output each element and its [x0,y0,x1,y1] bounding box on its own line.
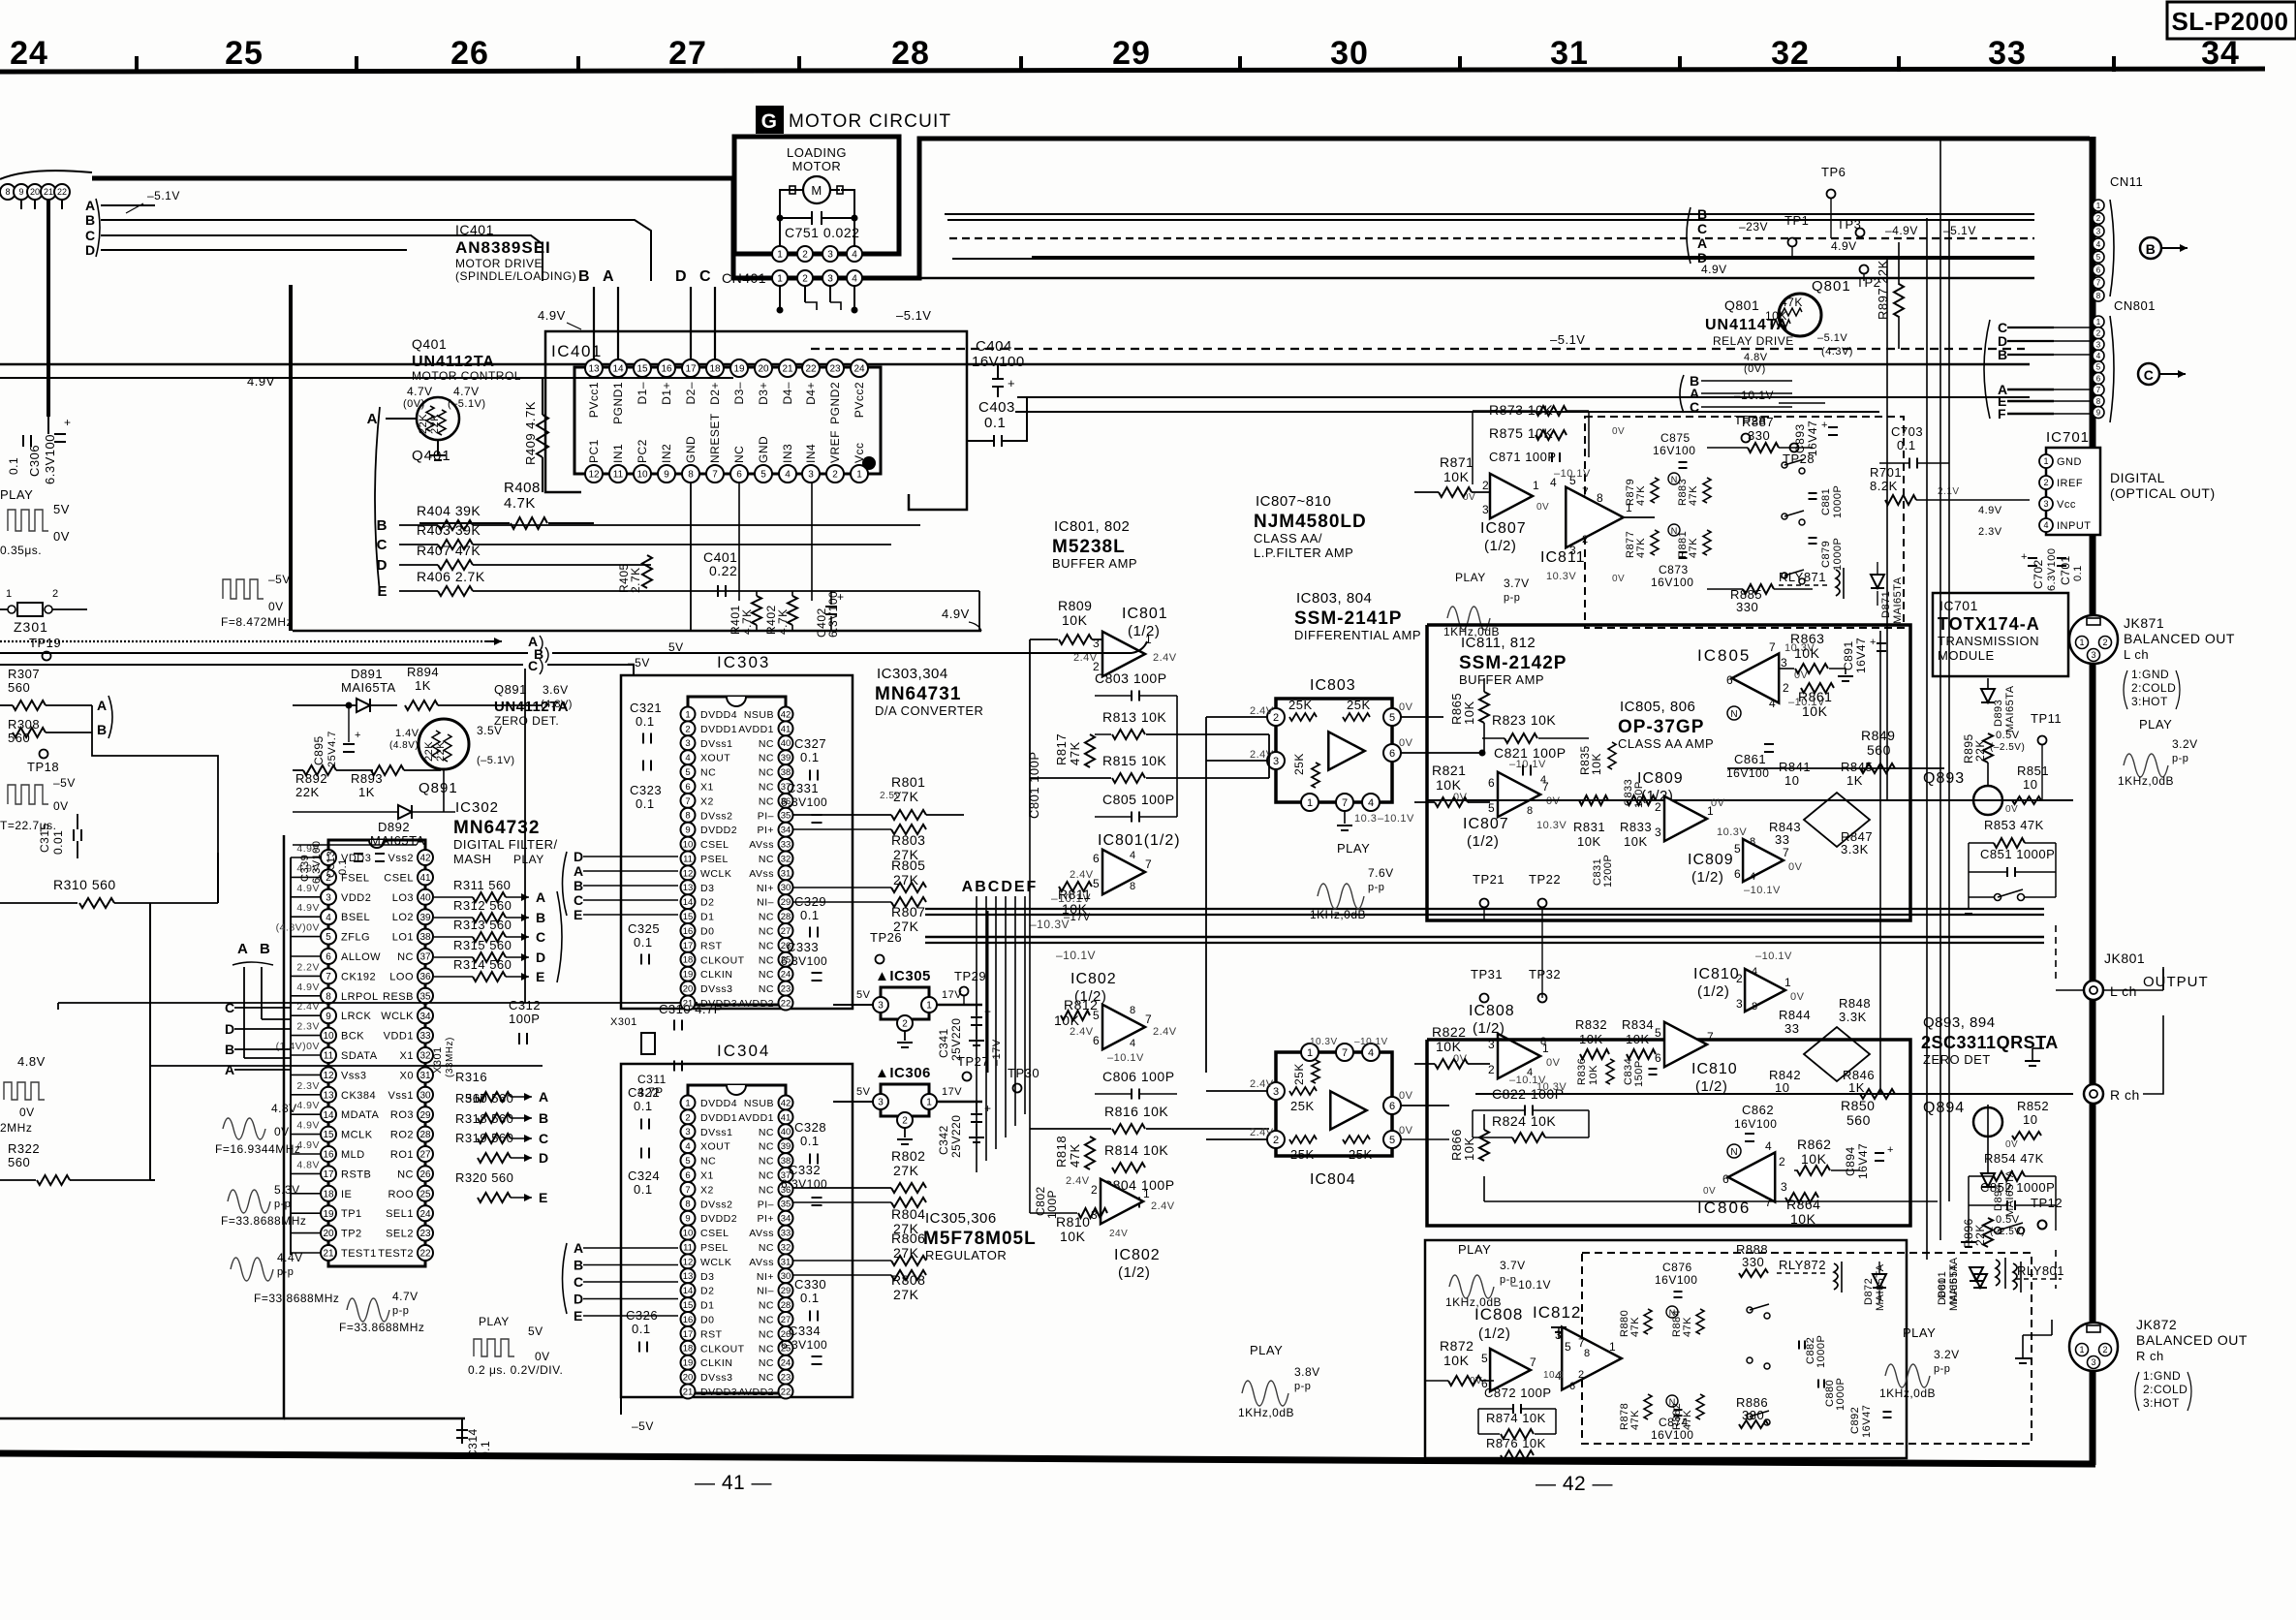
svg-text:7: 7 [1145,1012,1152,1026]
svg-text:2: 2 [2102,1345,2107,1355]
svg-text:DVDD1: DVDD1 [700,1112,737,1124]
svg-text:15: 15 [636,364,648,375]
svg-text:2: 2 [802,250,808,261]
bus 10.3V lower pair [925,936,2044,939]
svg-text:(1/2): (1/2) [1697,983,1729,1000]
svg-text:3: 3 [878,1001,884,1012]
svg-text:8: 8 [5,187,10,197]
svg-text:R318 560: R318 560 [455,1111,513,1126]
svg-text:+: + [1008,376,1015,390]
thick box L channel [1427,625,1910,920]
op-amp IC804 box [1276,1052,1392,1156]
svg-text:28: 28 [781,1300,791,1311]
svg-text:2: 2 [2043,478,2048,487]
svg-text:11: 11 [324,1051,334,1062]
svg-text:38: 38 [781,767,791,778]
svg-text:10.3V: 10.3V [1546,571,1576,582]
svg-text:NJM4580LD: NJM4580LD [1254,512,1367,532]
svg-text:PLAY: PLAY [0,487,33,502]
svg-text:19: 19 [683,1358,694,1369]
connector CN401 upper row [772,246,788,262]
ruler tick 30.5 [1458,56,1462,72]
svg-text:(33MHz): (33MHz) [445,1037,455,1077]
svg-text:C821 100P: C821 100P [1494,745,1567,761]
svg-text:10: 10 [1775,1080,1789,1095]
svg-text:1KHz,0dB: 1KHz,0dB [1238,1406,1294,1419]
svg-text:22: 22 [781,1386,791,1397]
svg-text:B: B [1697,206,1708,222]
SL-P2000 title box [2167,2,2296,39]
svg-text:0.1: 0.1 [479,1441,492,1458]
waveform T=22.7us [8,785,48,804]
svg-text:20: 20 [758,364,769,375]
svg-text:A: A [574,1240,584,1256]
svg-text:17V: 17V [942,1086,962,1098]
svg-text:NRESET: NRESET [708,413,722,463]
svg-text:IC802: IC802 [1114,1247,1161,1263]
svg-text:16V47: 16V47 [1854,638,1868,673]
svg-text:33: 33 [781,840,791,851]
svg-text:0.1: 0.1 [7,457,20,475]
svg-text:1: 1 [1609,1340,1616,1354]
svg-text:5: 5 [2096,363,2101,372]
dashed line L [2055,925,2057,979]
svg-text:17: 17 [683,941,694,951]
svg-text:NC: NC [759,926,774,938]
IC304 pins [681,1096,696,1110]
svg-text:A: A [97,698,108,713]
svg-text:C: C [536,929,546,945]
svg-text:IC809: IC809 [1637,770,1684,787]
svg-text:R833: R833 [1620,820,1652,834]
waveform 5.3V [228,1190,270,1213]
op-amp IC802 second half [1101,1179,1143,1224]
svg-text:(4.8V)0V: (4.8V)0V [276,922,320,934]
svg-text:C341: C341 [937,1028,950,1058]
svg-text:29: 29 [781,1286,791,1296]
svg-text:1: 1 [777,250,783,261]
svg-text:2.5V: 2.5V [880,791,902,801]
svg-text:47K: 47K [1682,1317,1693,1337]
svg-text:UN4112TA: UN4112TA [494,699,569,715]
svg-text:LO3: LO3 [392,892,414,904]
svg-text:C805 100P: C805 100P [1102,792,1175,807]
svg-text:(1/2): (1/2) [1478,1325,1510,1342]
op-amp IC812 big [1562,1327,1622,1390]
svg-text:R848: R848 [1839,996,1871,1011]
svg-text:PSEL: PSEL [700,1242,729,1254]
svg-text:NC: NC [759,1315,774,1326]
svg-text:PI+: PI+ [757,1213,774,1225]
svg-text:11: 11 [683,1242,693,1253]
svg-text:DVDD1: DVDD1 [700,724,737,735]
svg-text:F: F [1998,406,2006,421]
wire verticals 252-270 [244,1057,291,1059]
svg-text:RESB: RESB [383,991,414,1003]
svg-text:Q893, 894: Q893, 894 [1923,1014,1996,1031]
svg-text:R854 47K: R854 47K [1984,1151,2044,1166]
svg-text:4: 4 [2096,240,2101,249]
svg-text:PI–: PI– [758,1199,774,1210]
svg-text:p-p: p-p [277,1266,294,1278]
wire D long [101,249,407,251]
svg-text:4.9V: 4.9V [942,607,970,621]
svg-text:GND: GND [2057,456,2082,468]
svg-text:▲IC305: ▲IC305 [875,968,931,984]
svg-text:C: C [85,228,96,243]
svg-text:16: 16 [683,926,694,937]
wire bus pair upper [0,363,2030,366]
svg-text:R319 560: R319 560 [455,1131,513,1145]
svg-text:TRANSMISSION: TRANSMISSION [1938,634,2039,648]
svg-text:IC801, 802: IC801, 802 [1054,518,1130,535]
svg-text:6: 6 [1722,1172,1729,1186]
svg-text:0V: 0V [1399,737,1413,749]
svg-text:41: 41 [781,1112,791,1123]
wire R849 branch [1727,767,1944,769]
svg-text:TP31: TP31 [1471,967,1503,981]
svg-text:9: 9 [685,826,690,836]
svg-text:LO1: LO1 [392,932,414,944]
svg-text:40: 40 [781,1127,791,1137]
svg-text:0.1: 0.1 [2072,565,2084,581]
svg-text:E: E [539,1190,548,1205]
svg-text:41: 41 [419,873,431,884]
svg-text:3.3K: 3.3K [1841,842,1869,857]
svg-text:NC: NC [759,854,774,865]
waveform 4.7V pp [347,1298,389,1322]
svg-text:X1: X1 [700,782,714,794]
svg-text:0.1: 0.1 [636,796,655,811]
svg-text:REGULATOR: REGULATOR [925,1248,1007,1262]
svg-text:33: 33 [419,1031,431,1042]
svg-text:C862: C862 [1742,1103,1774,1117]
svg-text:3.8V: 3.8V [1294,1365,1320,1379]
svg-text:RELAY DRIVE: RELAY DRIVE [1713,334,1794,348]
svg-text:4: 4 [1769,697,1776,710]
svg-text:PGND2: PGND2 [828,382,842,424]
svg-text:+: + [984,1102,992,1115]
svg-text:8: 8 [326,991,331,1002]
svg-text:D: D [1697,250,1708,265]
svg-text:L.P.FILTER AMP: L.P.FILTER AMP [1254,545,1353,560]
svg-text:NC: NC [759,1372,774,1384]
svg-text:C751 0.022: C751 0.022 [785,225,859,240]
svg-text:10K: 10K [1790,1211,1816,1227]
svg-text:DIGITAL FILTER/: DIGITAL FILTER/ [453,837,558,852]
svg-text:7: 7 [685,1185,690,1196]
svg-text:NC: NC [700,767,716,779]
svg-text:C892: C892 [1849,1407,1861,1434]
svg-text:11: 11 [613,470,624,481]
ruler tick 28.5 [1019,56,1023,72]
svg-text:— 42 —: — 42 — [1536,1473,1613,1495]
svg-text:23: 23 [781,1373,791,1384]
svg-text:MOTOR CIRCUIT: MOTOR CIRCUIT [789,111,951,132]
svg-text:4.4V: 4.4V [277,1251,303,1264]
svg-text:12: 12 [323,1071,334,1081]
svg-text:▲IC306: ▲IC306 [875,1065,931,1081]
svg-text:2.4V: 2.4V [1070,1026,1094,1038]
svg-text:1K: 1K [415,678,431,693]
svg-text:C879: C879 [1820,541,1832,568]
svg-text:AVss: AVss [749,1257,774,1268]
svg-text:2: 2 [802,274,808,285]
svg-text:DVDD2: DVDD2 [700,825,737,836]
svg-text:13: 13 [588,364,600,375]
wires CN801 to pins [2054,327,2093,328]
svg-text:F=33.8688MHz: F=33.8688MHz [254,1292,339,1305]
svg-text:D: D [675,268,687,285]
switch contacts upper [1782,462,1787,468]
svg-text:0V: 0V [1612,574,1625,584]
svg-text:2.4V: 2.4V [1153,652,1177,664]
svg-text:31: 31 [781,868,791,879]
svg-text:TP1: TP1 [341,1208,362,1220]
svg-text:30: 30 [781,1271,791,1282]
svg-text:0V: 0V [268,600,284,613]
svg-text:6: 6 [1093,1034,1100,1047]
svg-text:1: 1 [1307,797,1313,809]
svg-text:7: 7 [2096,279,2101,288]
svg-text:C: C [1690,399,1700,415]
svg-text:TP29: TP29 [954,969,986,983]
svg-text:X1: X1 [400,1050,414,1062]
svg-text:VDD1: VDD1 [384,1031,414,1043]
svg-text:17: 17 [683,1329,694,1340]
svg-text:7: 7 [1145,857,1152,871]
svg-text:3: 3 [1655,826,1661,839]
svg-text:5V: 5V [528,1324,543,1338]
svg-text:IC801: IC801 [1122,606,1168,622]
svg-text:R701: R701 [1870,465,1902,480]
svg-text:GND: GND [684,436,698,463]
svg-text:Z301: Z301 [14,619,48,635]
svg-text:C: C [528,658,539,673]
svg-text:3: 3 [878,1098,884,1108]
svg-text:30: 30 [1330,35,1369,72]
IC303 chip body [688,697,786,1005]
svg-text:12: 12 [683,1257,694,1267]
svg-text:ROO: ROO [388,1189,414,1200]
svg-text:6: 6 [685,782,690,793]
svg-text:–10.1V: –10.1V [1378,813,1414,825]
svg-text:MN64732: MN64732 [453,818,540,838]
svg-text:25K: 25K [1290,1099,1315,1113]
svg-text:IC810: IC810 [1691,1061,1738,1077]
svg-text:TP21: TP21 [1473,872,1505,887]
svg-text:2: 2 [1736,972,1743,985]
svg-text:24: 24 [853,364,865,375]
svg-text:4: 4 [1750,871,1756,883]
svg-text:7.6V: 7.6V [1368,866,1394,880]
svg-text:XOUT: XOUT [700,1141,730,1153]
svg-text:35: 35 [781,811,791,822]
ruler tick 26.5 [576,56,580,72]
svg-text:B: B [539,1110,549,1126]
svg-text:4: 4 [685,1141,690,1152]
svg-text:R314 560: R314 560 [453,957,512,972]
svg-text:2: 2 [2096,214,2101,223]
svg-text:IN2: IN2 [660,444,673,463]
svg-text:R822: R822 [1432,1024,1466,1040]
svg-text:NC: NC [732,446,746,463]
svg-text:1: 1 [1626,501,1632,514]
svg-text:27K: 27K [893,1245,919,1261]
svg-text:NC: NC [759,738,774,750]
svg-text:8: 8 [2096,397,2101,406]
svg-text:1KHz,0dB: 1KHz,0dB [1310,908,1366,921]
svg-text:28: 28 [781,912,791,922]
svg-text:37: 37 [419,952,431,963]
svg-text:9: 9 [664,470,669,481]
svg-text:21: 21 [782,364,793,375]
svg-text:N: N [1671,526,1678,536]
svg-text:C321: C321 [630,701,662,715]
svg-text:CN11: CN11 [2110,174,2143,189]
svg-text:NC: NC [759,782,774,794]
svg-text:3: 3 [685,738,690,749]
svg-text:0.1: 0.1 [337,858,349,875]
svg-text:26: 26 [419,1169,431,1180]
svg-text:8: 8 [2096,292,2101,300]
svg-text:D0: D0 [700,926,714,938]
svg-text:6.3V100: 6.3V100 [781,795,827,809]
svg-text:R864: R864 [1786,1197,1820,1212]
svg-text:6: 6 [1655,1051,1661,1065]
svg-text:20: 20 [323,1229,334,1239]
svg-text:30: 30 [781,883,791,893]
svg-text:C876: C876 [1662,1261,1692,1274]
svg-text:IC303: IC303 [717,653,770,671]
svg-text:AVss: AVss [749,1228,774,1239]
svg-text:18: 18 [709,364,721,375]
svg-text:16V100: 16V100 [1655,1273,1697,1287]
svg-text:RST: RST [700,940,723,951]
svg-text:RO1: RO1 [390,1149,414,1161]
wire IC302 left feeds [290,857,292,1255]
svg-text:(–2.5V): (–2.5V) [1990,742,2025,753]
svg-text:JK801: JK801 [2104,950,2145,966]
svg-text:29: 29 [1112,35,1151,72]
thick bus wire from left connector to CN401 and top right [92,139,2090,278]
svg-text:4: 4 [1368,797,1374,809]
svg-text:PLAY: PLAY [2139,717,2172,732]
vertical wires centre [1541,937,1543,998]
svg-text:21: 21 [44,187,53,197]
svg-text:D4+: D4+ [804,382,818,405]
top ruler line [0,69,2265,72]
svg-text:19: 19 [323,1209,334,1220]
wires B A D C into IC401 [593,287,595,359]
svg-text:D2+: D2+ [708,382,722,405]
svg-text:4.8V: 4.8V [17,1054,46,1069]
svg-text:C324: C324 [628,1168,660,1183]
svg-text:30: 30 [419,1090,431,1101]
svg-text:A: A [603,268,614,285]
svg-text:35: 35 [781,1199,791,1210]
svg-text:NSUB: NSUB [744,709,774,721]
svg-text:D0: D0 [700,1315,714,1326]
svg-text:47K: 47K [1635,485,1647,506]
svg-text:1: 1 [685,1098,690,1108]
svg-text:LOADING: LOADING [787,145,847,160]
motor M1 [803,176,830,203]
svg-text:10K: 10K [1443,1353,1470,1368]
svg-text:0.22: 0.22 [709,563,737,578]
svg-text:NC: NC [759,940,774,951]
svg-text:8: 8 [685,811,690,822]
svg-text:R312 560: R312 560 [453,898,512,913]
resistor R812 [1061,1011,1090,1020]
svg-text:PLAY: PLAY [1250,1343,1283,1357]
svg-text:0.1: 0.1 [800,1291,820,1305]
svg-text:33: 33 [1988,35,2027,72]
svg-text:47K: 47K [1635,538,1647,558]
svg-text:1K: 1K [1848,1080,1865,1095]
wire motor left [780,190,793,250]
svg-text:4.8V: 4.8V [296,1159,320,1170]
svg-text:R316: R316 [455,1070,487,1084]
svg-text:1: 1 [1533,479,1539,492]
wire bus A arrow [0,640,484,642]
svg-text:B: B [260,941,270,957]
svg-text:C328: C328 [794,1120,826,1135]
svg-text:7: 7 [1783,846,1789,859]
thick box R channel [1427,1040,1910,1226]
svg-text:47K: 47K [1688,538,1699,558]
svg-text:25K: 25K [1349,1147,1373,1162]
resistor R409 [537,415,548,457]
svg-text:14: 14 [612,364,624,375]
svg-text:4.7V: 4.7V [453,385,480,398]
svg-text:1200P: 1200P [1602,855,1614,888]
svg-text:D3: D3 [700,883,714,894]
svg-text:16V100: 16V100 [1651,1428,1693,1442]
svg-text:C323: C323 [630,783,662,797]
svg-text:IE: IE [341,1189,352,1200]
test point TP18 [40,750,48,759]
svg-text:NI+: NI+ [757,883,774,894]
svg-text:10.3: 10.3 [1354,813,1377,825]
svg-text:D892: D892 [378,820,410,834]
svg-text:25V220: 25V220 [949,1115,963,1158]
svg-text:TP2: TP2 [341,1229,362,1240]
svg-text:6: 6 [1093,852,1100,865]
svg-text:18: 18 [683,955,694,966]
wire CN11 line D [1032,256,2034,258]
svg-text:–10.1V: –10.1V [1554,468,1591,480]
svg-text:C: C [377,537,388,553]
svg-text:24: 24 [781,970,791,981]
svg-text:16V47: 16V47 [1806,421,1819,456]
svg-text:5V: 5V [668,640,684,654]
svg-text:DVDD3: DVDD3 [700,1386,737,1398]
svg-text:MAI65TA: MAI65TA [1948,1263,1960,1311]
svg-text:TP27: TP27 [957,1054,989,1069]
svg-text:27: 27 [781,926,791,937]
svg-text:R804: R804 [891,1206,925,1222]
transistor Q891 [419,719,469,769]
svg-text:0V: 0V [1788,861,1803,873]
svg-text:(1/2): (1/2) [1128,623,1160,639]
svg-text:R876 10K: R876 10K [1486,1436,1546,1450]
svg-text:B: B [1998,347,2008,362]
svg-text:DIGITAL: DIGITAL [2110,470,2165,485]
svg-text:NC: NC [759,983,774,995]
svg-text:3: 3 [1736,997,1743,1011]
svg-text:C895: C895 [312,735,326,765]
